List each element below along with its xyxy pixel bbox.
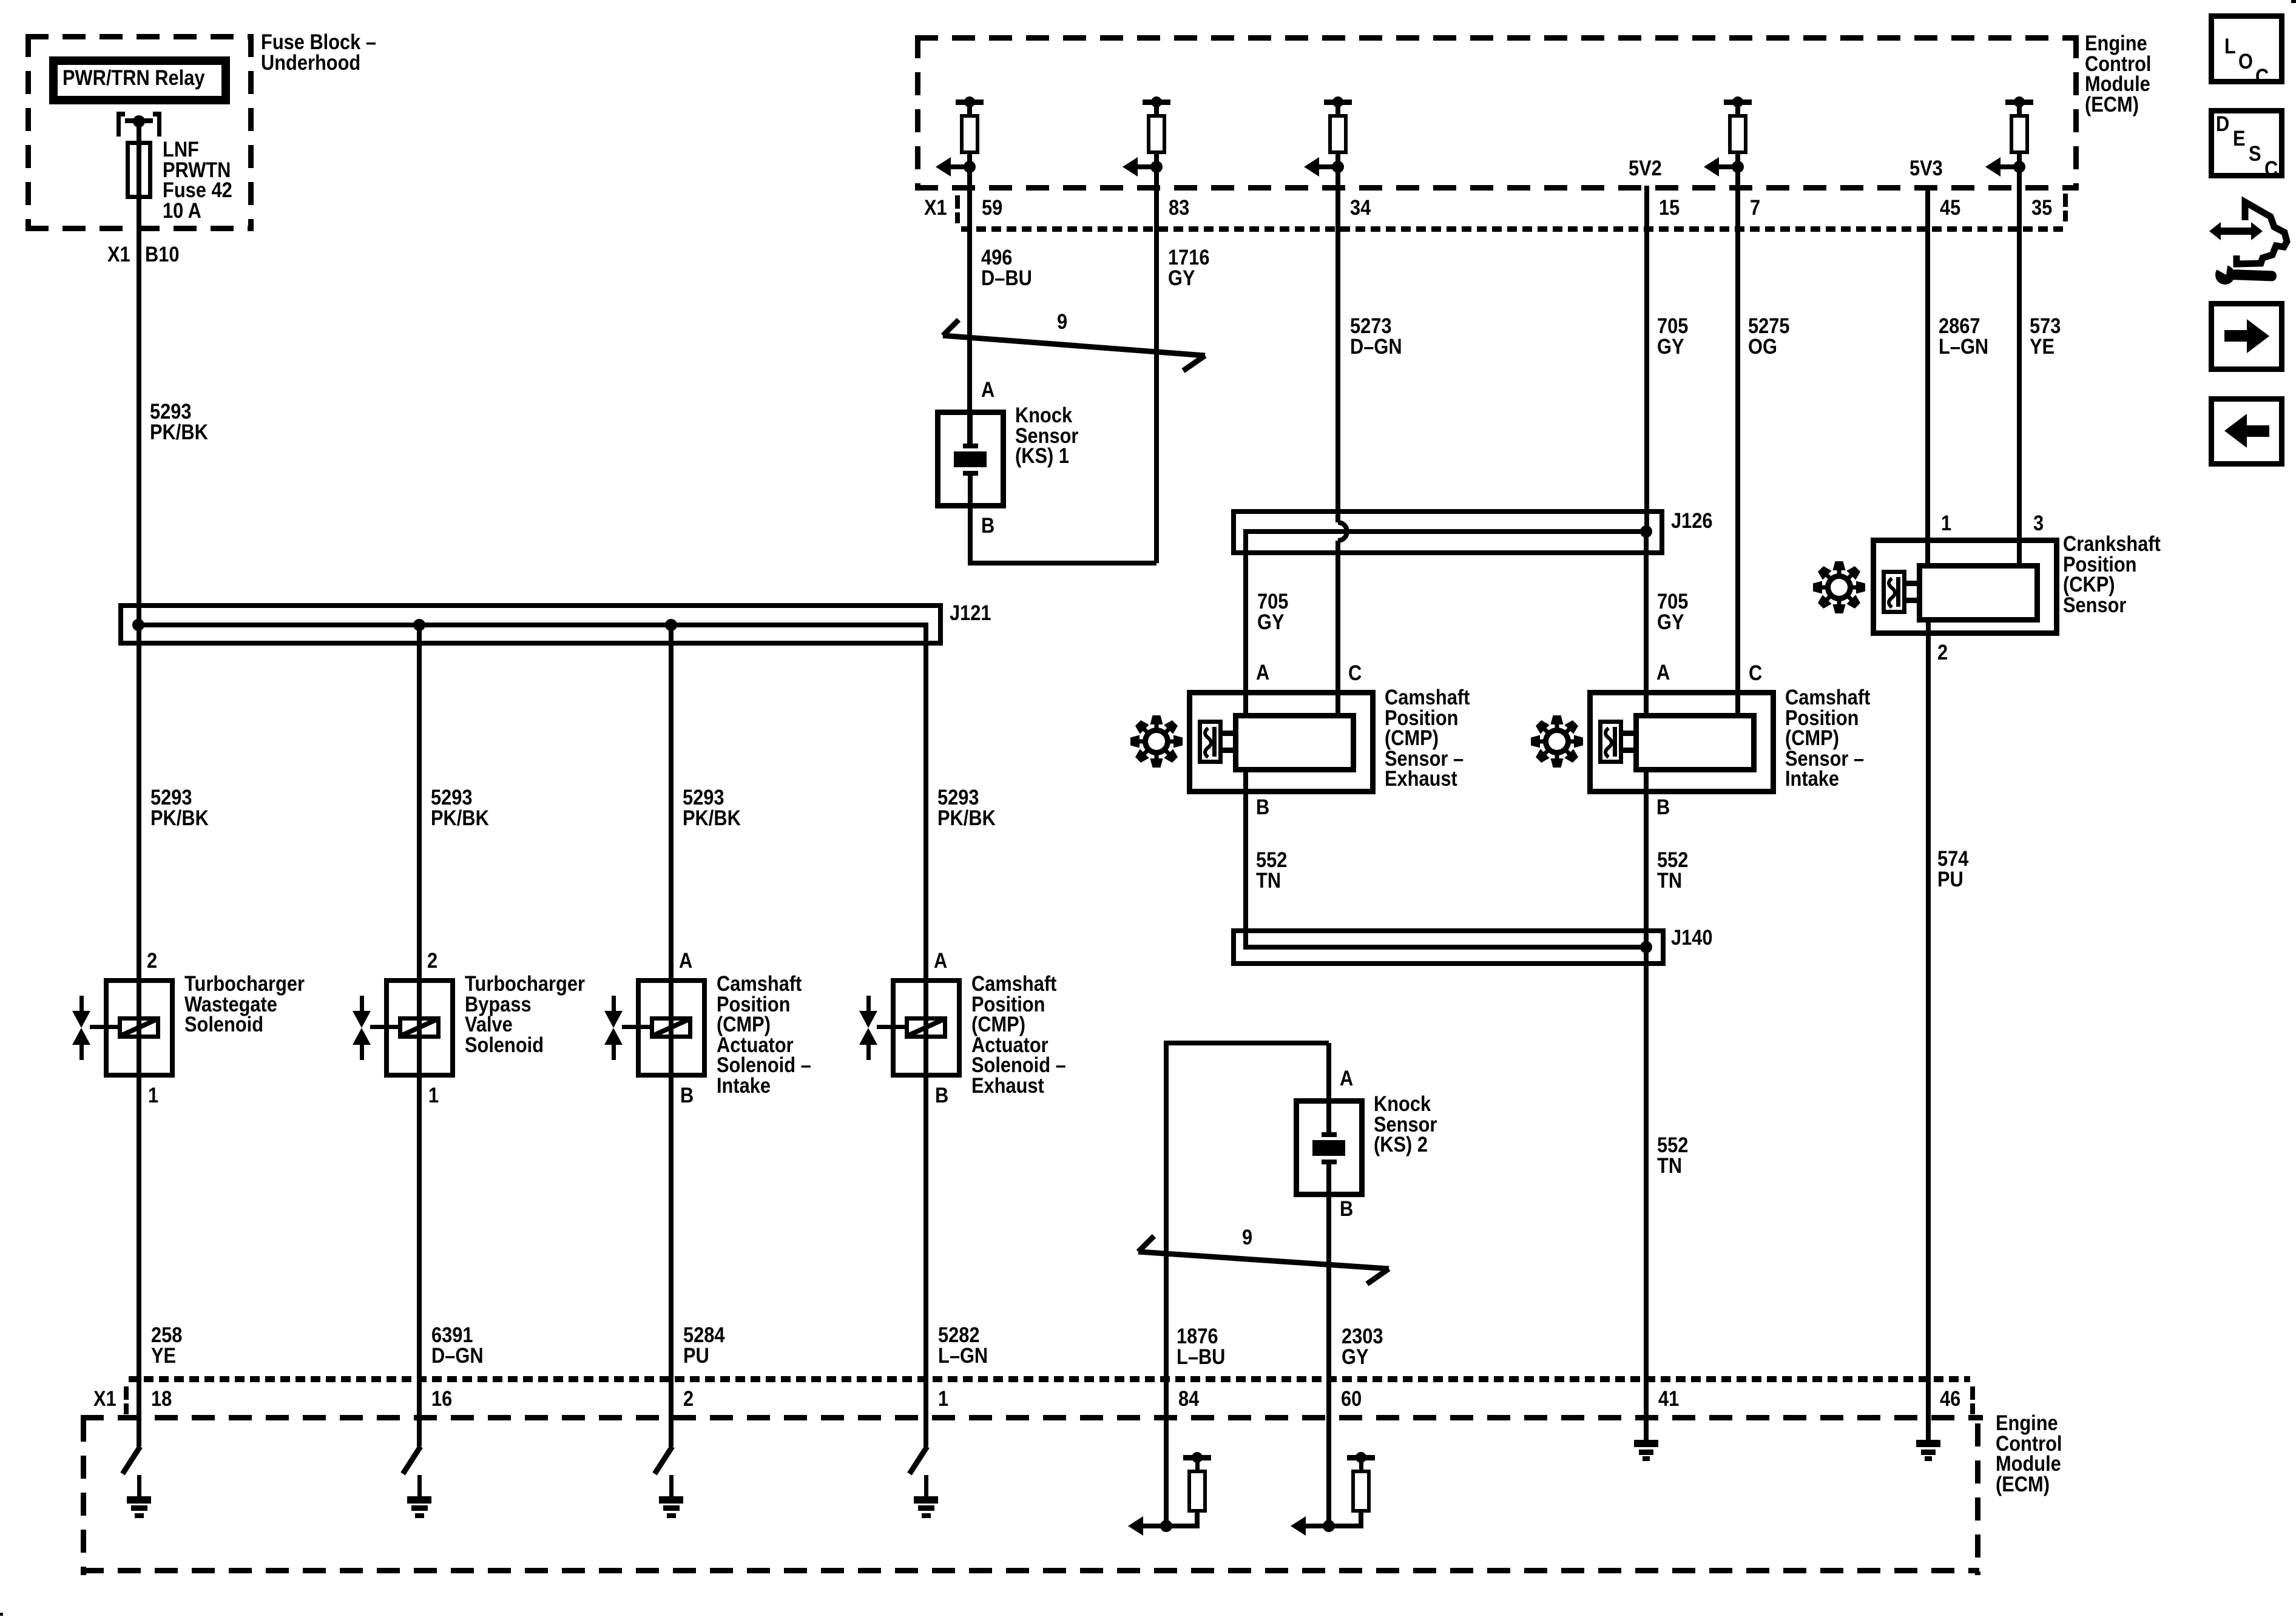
- junction block J126 box: [0, 0, 1, 1]
- connector label X1 (ECM bottom): [0, 0, 1, 1]
- junction block J140 box: [0, 0, 1, 1]
- twisted pair symbol 9 (KS1 wires): [0, 0, 3, 3]
- CKP pin 3 label: [0, 0, 1, 1]
- wire 5293 PK/BK branch 4: J121 to solenoid: [0, 0, 1, 1]
- wire 5293 PK/BK: fuse B10 to J121: [0, 0, 1, 1]
- sidebar next-page arrow: [0, 0, 1, 1]
- sidebar prev-page arrow icon box: [0, 0, 1, 1]
- CMP exhaust pin C label: [0, 0, 1, 1]
- sidebar diagnostic icon (arrow wrench): [0, 0, 1, 1]
- junction block J121 box: [0, 0, 1, 1]
- ECM pin 46 label (bottom): [0, 0, 1, 1]
- ground (ECM internal, pin 1): [0, 0, 1, 1]
- label LNF PRWTN Fuse 42 10 A: [0, 0, 1, 1]
- resistor ECM internal at pin 83: [0, 0, 1, 1]
- label 573 YE: [0, 0, 1, 1]
- wire 5293 PK/BK branch 2: J121 to solenoid: [0, 0, 1, 1]
- wire 1876 L-BU: ECM pin 84 to KS2 pin A loop: [0, 0, 1, 1]
- label Knock Sensor (KS) 2: [0, 0, 1, 1]
- solenoid 3 box: [0, 0, 1, 1]
- solenoid 3 pin B label: [0, 0, 1, 1]
- label 496 D-BU: [0, 0, 1, 1]
- ECM X1 connector dotted line (bottom): [0, 0, 1, 1]
- twisted pair symbol 9 (KS2 wires): [0, 0, 3, 3]
- ECM X1 separator (bottom left): [0, 0, 1, 1]
- solenoid 3 valve symbol: [0, 0, 1, 1]
- ECM X1 separator (bottom right): [0, 0, 1, 1]
- ground (ECM internal, pin 16): [0, 0, 1, 1]
- solenoid 1 pin 1 label: [0, 0, 1, 1]
- label Engine Control Module (ECM) top: [0, 0, 1, 1]
- wire 5293 PK/BK branch 3: J121 to solenoid: [0, 0, 1, 1]
- label 5282 L–GN: [0, 0, 1, 1]
- engine control module (ECM) bottom dashed box: [0, 0, 1, 1]
- ECM driver switch at pin 2: [0, 0, 3, 3]
- ECM pin 45 label: [0, 0, 1, 1]
- label Crankshaft Position (CKP) Sensor: [0, 0, 1, 1]
- ECM pin 41 label (bottom): [0, 0, 1, 1]
- J121 splice node 2: [0, 0, 1, 1]
- label 9 (twisted pair KS1): [0, 0, 1, 1]
- J121 internal bus wire: [0, 0, 1, 1]
- ECM driver switch at pin 16: [0, 0, 3, 3]
- J140 splice node: [0, 0, 1, 1]
- wire 5273 D-GN: J126 hop to CMP exhaust pin C: [0, 0, 1, 1]
- label 1716 GY: [0, 0, 1, 1]
- solenoid 4 valve symbol: [0, 0, 1, 1]
- wire 705 GY: ECM pin 15 to J126 splice: [0, 0, 1, 1]
- label J140: [0, 0, 1, 1]
- ECM pin 15 label: [0, 0, 1, 1]
- wire 552 TN: CMP exhaust pin B to J140: [0, 0, 1, 1]
- label 5293 PK/BK (feed): [0, 0, 1, 1]
- wire 496 D-BU: ECM pin 59 to KS1 pin A: [0, 0, 1, 1]
- solenoid 1 name label: [0, 0, 1, 1]
- solenoid 4 wire through body: [0, 0, 1, 1]
- solenoid 3 coil: [0, 0, 2, 2]
- wire 5273 D-GN: ECM pin 34 to CMP exhaust pin C (above J126): [0, 0, 1, 1]
- CMP intake pin A label: [0, 0, 1, 1]
- J126 internal bus wire: [0, 0, 1, 1]
- solenoid 4 box: [0, 0, 1, 1]
- fuse F42 LNF PRWTN 10A symbol: [0, 0, 1, 1]
- wire 552 TN: J140 to ECM pin 41: [0, 0, 1, 1]
- crankshaft position (CKP) sensor body: [0, 0, 2, 2]
- wire 2303 GY: KS2 pin B to ECM pin 60: [0, 0, 1, 1]
- solenoid 2 pin 1 label: [0, 0, 1, 1]
- wire 258 YE: solenoid 1 to ECM pin 18: [0, 0, 1, 1]
- solenoid 2 valve symbol: [0, 0, 1, 1]
- page corner mark bottom left: [0, 0, 1, 1]
- CMP exhaust pin A label: [0, 0, 1, 1]
- wire 705 GY: J126 to CMP intake pin A: [0, 0, 1, 1]
- label 5273 D-GN: [0, 0, 1, 1]
- solenoid 1 wire through body: [0, 0, 1, 1]
- ECM X1 separator (top right): [0, 0, 1, 1]
- solenoid 4 name label: [0, 0, 1, 1]
- J140 internal bus wire: [0, 0, 1, 1]
- wire KS1 pin B to 1716 GY loop: [0, 0, 1, 1]
- solenoid 1 coil: [0, 0, 2, 2]
- label Engine Control Module (ECM) bottom: [0, 0, 1, 1]
- sidebar LOC icon box: [0, 0, 1, 1]
- knock sensor (KS) 2 box: [0, 0, 1, 1]
- solenoid 3 wire through body: [0, 0, 1, 1]
- J121 splice node 1: [0, 0, 1, 1]
- solenoid 2 box: [0, 0, 1, 1]
- label 5293 PK/BK branch 1: [0, 0, 1, 1]
- ground (ECM internal, pin 46): [0, 0, 1, 1]
- wire 1716 GY: ECM pin 83 to KS1 pin B loop: [0, 0, 1, 1]
- connector label X1 (ECM top): [0, 0, 1, 1]
- ECM pin 59 label: [0, 0, 1, 1]
- ECM pin 2 label (bottom): [0, 0, 1, 1]
- knock sensor KS1 pin B label: [0, 0, 1, 1]
- solenoid 4 pin A label: [0, 0, 1, 1]
- knock sensor KS1 pin A label: [0, 0, 1, 1]
- resistor ECM internal at pin 35: [0, 0, 1, 1]
- resistor ECM internal at pin 84: [0, 0, 1, 1]
- resistor ECM internal at pin 34: [0, 0, 1, 1]
- label 6391 D–GN: [0, 0, 1, 1]
- label 5293 PK/BK branch 3: [0, 0, 1, 1]
- CMP exhaust pin B label: [0, 0, 1, 1]
- label Fuse Block - Underhood: [0, 0, 1, 1]
- engine control module (ECM) top dashed box: [0, 0, 1, 1]
- sidebar LOC letters: [0, 0, 1, 1]
- ground (ECM internal, pin 2): [0, 0, 1, 1]
- wire 5293 PK/BK branch 1: J121 to solenoid: [0, 0, 1, 1]
- camshaft position CMP sensor intake gear icon: [0, 0, 1, 1]
- wire 573 YE: ECM pin 35 to CKP pin 3: [0, 0, 1, 1]
- knock sensor KS1 piezo element: [0, 0, 1, 1]
- ECM pin 1 label (bottom): [0, 0, 1, 1]
- ECM 5V3 reference label: [0, 0, 1, 1]
- label 2303 GY: [0, 0, 1, 1]
- fuse block - underhood dashed box: [0, 0, 1, 1]
- ground (ECM internal, pin 41): [0, 0, 1, 1]
- label Camshaft Position (CMP) Sensor - Exhaust: [0, 0, 1, 1]
- resistor ECM internal at pin 59: [0, 0, 1, 1]
- sidebar DESC icon box: [0, 0, 1, 1]
- CMP intake pin C label: [0, 0, 1, 1]
- relay K PWR/TRN Relay box: [0, 0, 1, 1]
- ECM pin 84 label (bottom): [0, 0, 1, 1]
- solenoid 4 pin B label: [0, 0, 1, 1]
- wire 5275 OG: ECM pin 7 to CMP intake pin C: [0, 0, 1, 1]
- label 705 GY (exhaust branch): [0, 0, 1, 1]
- ECM pin 34 label: [0, 0, 1, 1]
- connector label X1 (fuse block): [0, 0, 1, 1]
- label 705 GY (intake branch): [0, 0, 1, 1]
- solenoid 2 pin 2 label: [0, 0, 1, 1]
- crankshaft position CKP sensor gear icon: [0, 0, 1, 1]
- label 5293 PK/BK branch 4: [0, 0, 1, 1]
- label 9 (twisted pair KS2): [0, 0, 1, 1]
- solenoid 2 name label: [0, 0, 1, 1]
- label 5293 PK/BK branch 2: [0, 0, 1, 1]
- solenoid 2 wire through body: [0, 0, 1, 1]
- wire 552 TN: CMP intake pin B to J140: [0, 0, 1, 1]
- label 5284 PU: [0, 0, 1, 1]
- knock sensor KS2 piezo element: [0, 0, 1, 1]
- knock sensor KS2 pin A label: [0, 0, 1, 1]
- knock sensor KS2 pin B label: [0, 0, 1, 1]
- sidebar prev-page arrow: [0, 0, 1, 1]
- solenoid 2 coil: [0, 0, 2, 2]
- label 5275 OG: [0, 0, 1, 1]
- solenoid 1 pin 2 label: [0, 0, 1, 1]
- CMP intake pin B label: [0, 0, 1, 1]
- wire 5282 L–GN: solenoid 4 to ECM pin 1: [0, 0, 1, 1]
- wire 6391 D–GN: solenoid 2 to ECM pin 16: [0, 0, 1, 1]
- ECM 5V2 reference label: [0, 0, 1, 1]
- ECM pin 35 label: [0, 0, 1, 1]
- J126 splice node: [0, 0, 1, 1]
- ECM X1 separator (top left): [0, 0, 1, 1]
- pin B10 label: [0, 0, 1, 1]
- label 258 YE: [0, 0, 1, 1]
- label 552 TN (intake): [0, 0, 1, 1]
- label J121: [0, 0, 1, 1]
- camshaft position (CMP) sensor exhaust body: [0, 0, 2, 2]
- solenoid 1 valve symbol: [0, 0, 1, 1]
- label 2867 L-GN: [0, 0, 1, 1]
- wire 2867 L-GN: ECM pin 45 to CKP pin 1: [0, 0, 1, 1]
- label 552 TN (exhaust): [0, 0, 1, 1]
- sidebar DESC letters: [0, 0, 1, 1]
- sidebar next-page arrow icon box: [0, 0, 1, 1]
- camshaft position (CMP) sensor intake body: [0, 0, 2, 2]
- solenoid 4 coil: [0, 0, 2, 2]
- resistor ECM internal at pin 7: [0, 0, 1, 1]
- CKP pin 1 label: [0, 0, 1, 1]
- camshaft position CMP sensor exhaust gear icon: [0, 0, 1, 1]
- ECM driver switch at pin 18: [0, 0, 3, 3]
- label 552 TN (to pin 41): [0, 0, 1, 1]
- wire 5273 D-GN hop over J126: [0, 0, 2, 2]
- ECM pin 7 label: [0, 0, 1, 1]
- ECM pin 18 label (bottom): [0, 0, 1, 1]
- knock sensor (KS) 1 box: [0, 0, 1, 1]
- label PWR/TRN Relay: [0, 0, 1, 1]
- relay pin terminal bracket: [0, 0, 1, 1]
- ECM pin 16 label (bottom): [0, 0, 1, 1]
- resistor ECM internal at pin 60: [0, 0, 1, 1]
- solenoid 3 pin A label: [0, 0, 1, 1]
- solenoid 1 box: [0, 0, 1, 1]
- ECM X1 connector dotted line (top): [0, 0, 1, 1]
- ECM pin 60 label (bottom): [0, 0, 1, 1]
- wire 574 PU: CKP pin 2 to ECM pin 46: [0, 0, 1, 1]
- wire 705 GY: J126 to CMP exhaust pin A: [0, 0, 1, 1]
- ground (ECM internal, pin 18): [0, 0, 1, 1]
- ECM driver switch at pin 1: [0, 0, 3, 3]
- label J126: [0, 0, 1, 1]
- page corner mark top right: [0, 0, 1, 1]
- label Camshaft Position (CMP) Sensor - Intake: [0, 0, 1, 1]
- label 705 GY (pin 15): [0, 0, 1, 1]
- label Knock Sensor (KS) 1: [0, 0, 1, 1]
- label 1876 L-BU: [0, 0, 1, 1]
- J121 splice node 3: [0, 0, 1, 1]
- wire 5284 PU: solenoid 3 to ECM pin 2: [0, 0, 1, 1]
- CKP pin 2 label: [0, 0, 1, 1]
- solenoid 3 name label: [0, 0, 1, 1]
- label 574 PU: [0, 0, 1, 1]
- ECM pin 83 label: [0, 0, 1, 1]
